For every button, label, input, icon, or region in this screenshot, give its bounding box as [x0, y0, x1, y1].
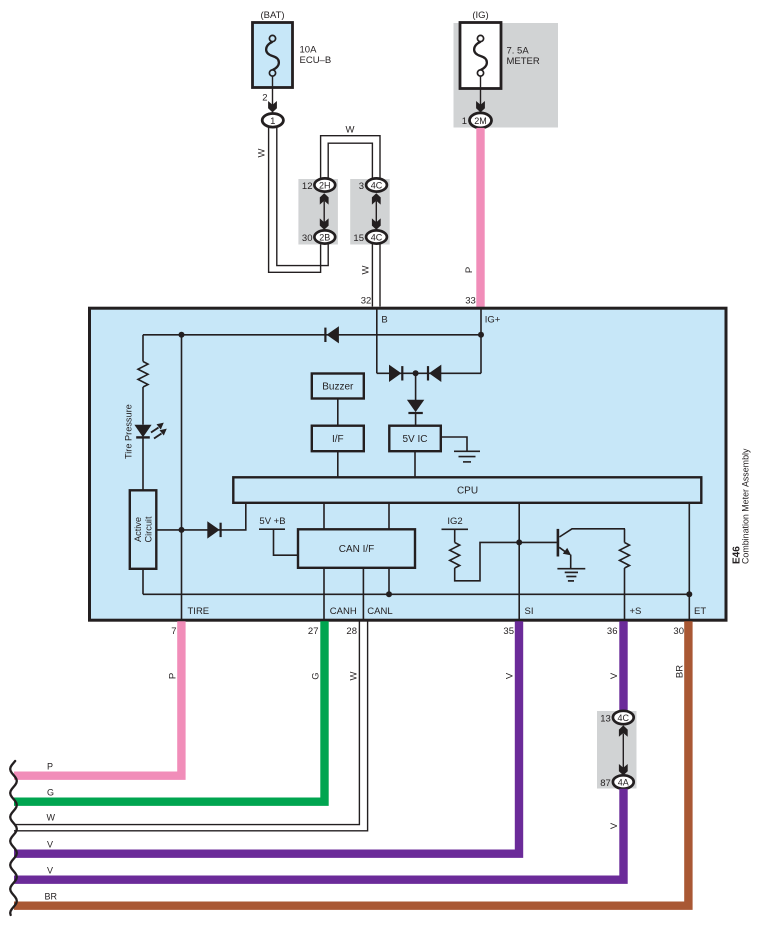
svg-text:BR: BR — [45, 891, 58, 901]
svg-text:IG+: IG+ — [485, 315, 501, 326]
wire V (violet) pin 36 upper segment — [619, 621, 627, 712]
diode D2 (pointing right) — [389, 365, 402, 382]
svg-text:V: V — [609, 672, 620, 679]
junction dot — [179, 527, 185, 533]
svg-text:P: P — [168, 673, 179, 679]
wire V (violet) pin 35 — [14, 621, 519, 853]
power symbol IG2 — [442, 516, 469, 543]
svg-text:1: 1 — [462, 116, 467, 127]
svg-text:G: G — [47, 787, 54, 797]
I/F box — [312, 426, 364, 452]
svg-text:W: W — [349, 671, 360, 680]
fuse METER (IG) — [460, 10, 540, 89]
svg-text:3: 3 — [359, 181, 364, 192]
wire 5V IC to ground — [441, 437, 467, 451]
svg-text:10A: 10A — [300, 45, 318, 56]
wire from fuse IG pin 1 — [480, 76, 482, 113]
diode D1 (pointing left) — [325, 326, 339, 343]
svg-text:12: 12 — [302, 181, 313, 192]
connector 2M — [470, 113, 492, 128]
wire W from connector 1 to 2B (double line) — [269, 127, 329, 272]
svg-text:30: 30 — [673, 626, 684, 637]
transistor Q1 (NPN) — [557, 529, 625, 569]
svg-text:CAN I/F: CAN I/F — [339, 544, 375, 555]
svg-text:V: V — [47, 865, 53, 875]
svg-text:W: W — [360, 265, 371, 274]
wire CPU to CAN I/F left — [323, 503, 325, 529]
wire collector to resistor R3 — [624, 529, 626, 543]
svg-text:4A: 4A — [618, 778, 629, 788]
svg-text:7: 7 — [171, 626, 176, 637]
wire SI vertical — [518, 503, 520, 620]
wire CANL — [362, 568, 364, 620]
diode D5 (pointing right) — [207, 521, 220, 538]
rail horizontal — [143, 593, 689, 595]
junction dot at TIRE branch — [179, 332, 185, 338]
connector 4C(3)/4C(15) junction block — [350, 178, 390, 244]
svg-text:W: W — [47, 813, 56, 823]
connector 4C(13)/4A(87) junction block — [597, 711, 637, 789]
fuse ECU-B (BAT) — [253, 10, 332, 88]
svg-text:SI: SI — [525, 606, 534, 617]
LED tire pressure warning — [134, 423, 166, 439]
svg-text:V: V — [47, 839, 53, 849]
svg-text:2: 2 — [262, 93, 267, 104]
svg-text:4C: 4C — [618, 713, 630, 723]
svg-text:35: 35 — [503, 626, 514, 637]
svg-text:33: 33 — [465, 296, 476, 307]
svg-text:30: 30 — [302, 233, 313, 244]
power symbol 5V +B — [259, 516, 298, 555]
wire W loop from 2H to 4C (double line) — [321, 136, 380, 179]
svg-text:B: B — [381, 315, 387, 326]
5V IC box — [389, 426, 441, 452]
junction dot SI — [516, 539, 522, 545]
svg-text:CANL: CANL — [367, 606, 392, 617]
wire CPU to CAN I/F right — [388, 503, 390, 529]
wire diode to 5V IC — [415, 413, 417, 426]
CAN I/F box — [298, 529, 415, 568]
buzzer box — [312, 374, 364, 399]
svg-text:2M: 2M — [474, 116, 487, 126]
arrow into connector 2M — [476, 101, 485, 112]
diode D3 (pointing left) — [428, 365, 441, 382]
svg-text:Tire Pressure: Tire Pressure — [124, 404, 134, 459]
resistor R2 — [450, 543, 460, 569]
wire W (white double) pin 28 — [14, 620, 368, 831]
wire CAN I/F to rail — [388, 568, 390, 594]
svg-text:Combination Meter Assembly: Combination Meter Assembly — [741, 448, 751, 564]
svg-text:Buzzer: Buzzer — [322, 382, 354, 393]
svg-text:Active: Active — [133, 517, 143, 542]
wire BR (brown) pin 30 — [14, 621, 688, 905]
svg-text:13: 13 — [600, 713, 611, 724]
wire G (green) pin 27 — [14, 621, 325, 801]
connector 2H/2B junction block — [298, 178, 338, 244]
wire P from 2M to pin 33 (pink) — [476, 128, 484, 307]
svg-text:CPU: CPU — [457, 486, 478, 497]
svg-text:ECU–B: ECU–B — [300, 55, 332, 66]
svg-text:G: G — [311, 672, 322, 679]
wire left branch down — [142, 335, 144, 362]
svg-text:4C: 4C — [371, 181, 383, 191]
wire active circuit to CPU — [157, 503, 246, 530]
wire junction down — [415, 373, 417, 400]
connector 1 — [262, 114, 283, 128]
wire IG+ vertical — [480, 310, 482, 374]
wire +S vertical — [624, 568, 626, 620]
wire IG2 resistor to transistor base — [455, 542, 557, 580]
resistor R1 — [138, 362, 148, 388]
resistor R3 — [620, 543, 630, 569]
svg-text:(IG): (IG) — [472, 10, 488, 21]
junction dot — [413, 370, 419, 376]
svg-text:15: 15 — [353, 233, 364, 244]
ground (transistor emitter) — [557, 569, 585, 581]
ground (5V IC) — [454, 451, 480, 462]
wire LED to active circuit — [142, 437, 144, 490]
svg-text:I/F: I/F — [332, 434, 344, 445]
wire active circuit to rail — [142, 569, 144, 595]
svg-text:V: V — [609, 822, 620, 829]
svg-text:4C: 4C — [371, 233, 383, 243]
svg-text:87: 87 — [600, 778, 611, 789]
junction dot on rail — [386, 591, 392, 597]
wire ET vertical — [688, 503, 690, 620]
svg-text:32: 32 — [361, 296, 372, 307]
svg-text:CANH: CANH — [330, 606, 357, 617]
IG junction block (gray) — [454, 23, 559, 128]
svg-text:IG2: IG2 — [447, 516, 462, 527]
svg-text:W: W — [346, 125, 355, 136]
svg-text:28: 28 — [346, 626, 357, 637]
continuation squiggle (wire break) — [10, 761, 17, 915]
wire I/F to CPU — [337, 451, 339, 477]
svg-text:5V IC: 5V IC — [402, 434, 427, 445]
svg-text:W: W — [257, 148, 268, 157]
wire P (pink) pin 7 — [14, 621, 181, 775]
junction dot on ET — [686, 591, 692, 597]
svg-text:P: P — [47, 761, 53, 771]
svg-text:2B: 2B — [319, 233, 330, 243]
wire V (violet) pin 36 lower segment — [14, 789, 624, 880]
wire CANH — [323, 568, 325, 620]
svg-text:27: 27 — [308, 626, 319, 637]
svg-text:V: V — [504, 672, 515, 679]
wire horizontal from IG+ to tire pressure branch — [143, 334, 481, 336]
svg-text:TIRE: TIRE — [188, 606, 210, 617]
svg-text:Circuit: Circuit — [144, 516, 154, 542]
svg-text:(BAT): (BAT) — [260, 10, 284, 21]
svg-text:METER: METER — [507, 56, 540, 67]
wire 5V IC to CPU — [414, 451, 416, 477]
svg-text:ET: ET — [694, 606, 706, 617]
svg-text:2H: 2H — [319, 181, 331, 191]
active circuit box — [130, 490, 157, 569]
wire buzzer to I/F — [337, 399, 339, 426]
wire — [142, 387, 144, 425]
CPU box — [233, 477, 701, 503]
wire TIRE vertical — [181, 335, 183, 620]
combination meter assembly box E46 — [90, 308, 727, 620]
svg-text:+S: +S — [630, 606, 642, 617]
junction dot at IG+ — [478, 332, 484, 338]
svg-text:P: P — [464, 267, 475, 273]
wire B/IG+ diode pair horizontal — [377, 372, 481, 374]
svg-text:36: 36 — [607, 626, 618, 637]
wire B vertical — [376, 310, 378, 374]
arrow into connector 1 — [268, 101, 277, 112]
wire from fuse BAT pin 2 — [272, 76, 274, 113]
svg-text:5V +B: 5V +B — [259, 516, 285, 527]
diode D4 (pointing down) — [407, 400, 424, 413]
svg-text:1: 1 — [270, 116, 275, 127]
wire W from 4C to pin 32 (double line) — [372, 244, 380, 307]
svg-text:7. 5A: 7. 5A — [507, 46, 530, 57]
svg-text:BR: BR — [675, 665, 686, 678]
